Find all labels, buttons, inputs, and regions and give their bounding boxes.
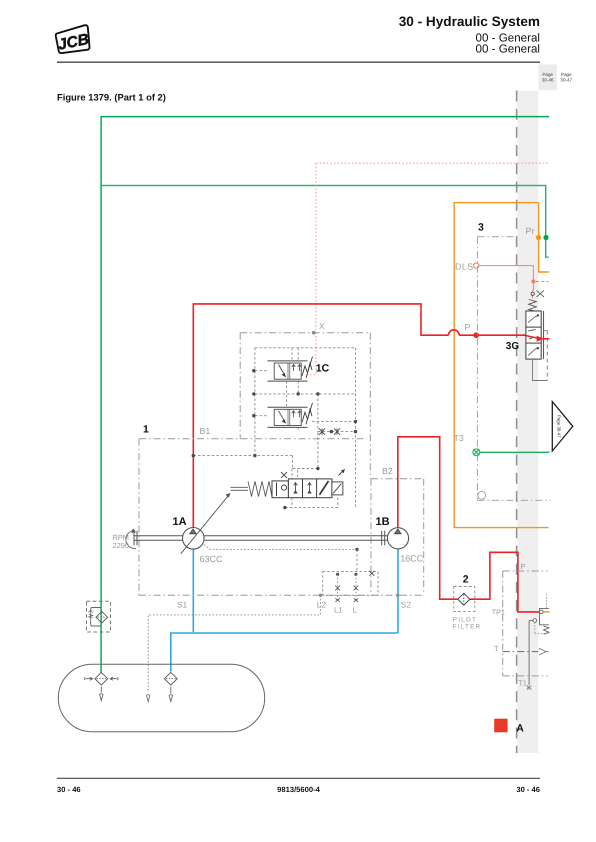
node S2 box dot: [396, 594, 399, 597]
valve 3G drain: [533, 331, 548, 381]
svg-text:30 - 46: 30 - 46: [57, 785, 81, 794]
svg-text:63CC: 63CC: [200, 554, 224, 564]
svg-text:1B: 1B: [376, 516, 390, 528]
box 1C inner dashed: [255, 348, 356, 508]
fold dashed line: [516, 91, 518, 754]
node X junction dot: [312, 331, 316, 335]
wire salmon stub above 3G spring: [532, 291, 534, 299]
svg-text:1: 1: [143, 424, 149, 436]
svg-text:2290: 2290: [113, 541, 129, 550]
svg-text:TP1: TP1: [492, 607, 505, 616]
svg-text:X: X: [319, 321, 325, 331]
svg-text:T: T: [494, 644, 499, 653]
pump 1A outlet triangle: [190, 529, 197, 534]
svg-text:T3: T3: [454, 433, 464, 443]
page tab 30-47: [560, 72, 572, 82]
svg-text:B1: B1: [200, 426, 211, 436]
svg-text:DLS: DLS: [455, 261, 474, 271]
svg-text:A: A: [516, 722, 524, 734]
svg-text:30-47: 30-47: [560, 78, 572, 83]
node L2 dot: [319, 594, 322, 597]
rpm arrowhead: [131, 528, 136, 533]
wire orange load sense loop: [454, 203, 548, 528]
pilot filter element: [458, 593, 470, 605]
wire orange dotted pilot X vertical: [305, 163, 316, 375]
svg-text:B2: B2: [382, 466, 393, 476]
box B2 boundary: [371, 479, 424, 596]
page tab 30-46: [538, 64, 557, 90]
wire orange TP1 stub: [543, 611, 550, 613]
arrow drain into tank: [147, 695, 150, 702]
svg-text:30 - 46: 30 - 46: [516, 785, 540, 794]
svg-text:FILTER: FILTER: [453, 624, 481, 631]
wire dashed pilot to compensator: [285, 469, 338, 508]
pump compensator spring: [248, 481, 272, 496]
orifice symbols 1C: [319, 428, 340, 434]
pump 1A arrowhead: [225, 493, 230, 498]
relief valve 3 spring: [529, 300, 537, 312]
node dots 1C network: [192, 369, 358, 470]
wire red pump 1B pressure: [398, 437, 458, 599]
wire salmon DLS line: [479, 266, 534, 291]
box 1 boundary: [139, 439, 424, 596]
reducing valve pilot dotted: [535, 594, 548, 633]
wire blue suction manifold: [171, 633, 398, 672]
svg-text:1C: 1C: [316, 362, 330, 374]
svg-text:L: L: [353, 605, 357, 614]
node case drain dot: [355, 548, 358, 551]
wire orange Pr drop: [539, 203, 549, 272]
pump compensator body: [288, 479, 332, 498]
node green dot: [543, 235, 548, 240]
strainer drain arrow green: [100, 687, 103, 701]
return filter bypass check: [89, 610, 93, 618]
svg-text:1A: 1A: [173, 516, 187, 528]
wire salmon dashed stub: [536, 281, 548, 283]
node DLS port circle: [474, 263, 479, 268]
return filter element: [96, 611, 108, 623]
svg-text:3G: 3G: [506, 341, 520, 352]
relief valve 3 throttle: [531, 291, 544, 298]
svg-text:Page: Page: [542, 72, 553, 77]
wire dotted case drain 1A: [204, 545, 357, 550]
pump 1A: [183, 528, 205, 550]
svg-text:Figure 1379. (Part 1 of 2): Figure 1379. (Part 1 of 2): [57, 92, 166, 103]
wire green branch to Pr: [102, 186, 549, 258]
wire dotted L1 L drops: [338, 574, 356, 602]
pilot filter 2 dashed box: [454, 587, 475, 612]
wire dashed valve ports 1C: [193, 348, 355, 469]
solenoid 1C lower spring: [302, 403, 313, 425]
wire dotted L2 drain: [148, 595, 320, 691]
node T3 plug: [473, 449, 480, 456]
pump 1A drive shaft left: [134, 531, 183, 546]
wire red P to valve 3G: [459, 334, 526, 336]
header rule: [57, 61, 540, 63]
pump 1B: [387, 528, 408, 549]
tank: [58, 664, 264, 732]
drive shaft between pumps: [204, 531, 387, 546]
wire red arrowhead 3G: [537, 336, 544, 342]
node salmon junction dot: [531, 279, 535, 283]
valve 3 boundary gray: [477, 237, 551, 501]
node compensator drain dot: [283, 506, 286, 509]
box drain orifices dashed: [323, 572, 378, 596]
port O symbol: [478, 491, 486, 499]
svg-text:Pr: Pr: [526, 226, 535, 236]
svg-text:P: P: [521, 562, 526, 571]
box 1C boundary: [240, 333, 370, 479]
reducing valve block A: [527, 608, 549, 689]
svg-text:30 - Hydraulic System: 30 - Hydraulic System: [399, 14, 540, 29]
block A boundary: [503, 571, 548, 676]
wire red pump 1A pressure: [193, 304, 448, 528]
pump 1A variable arrow: [181, 495, 229, 554]
node P red dot: [473, 332, 479, 338]
svg-text:16CC: 16CC: [400, 553, 424, 563]
wire blue suction S1: [192, 550, 194, 633]
fold shading band: [517, 91, 538, 754]
pump compensator right box: [332, 469, 345, 495]
suction strainer green: [85, 672, 119, 685]
valve 3G body: [526, 311, 544, 359]
svg-text:Page 30-47: Page 30-47: [557, 415, 562, 438]
suction strainer blue: [164, 672, 177, 685]
legend red square A: [494, 719, 507, 733]
return filter dashed box: [87, 601, 111, 632]
svg-text:2: 2: [463, 573, 469, 585]
wire dashed drain drop: [356, 549, 358, 571]
wire green suction top: [101, 117, 549, 673]
svg-text:3: 3: [478, 222, 484, 234]
wire blue suction S2: [397, 549, 399, 633]
wire red pilot filter to block A: [470, 552, 539, 612]
wire green T3: [480, 451, 550, 453]
svg-text:S1: S1: [177, 600, 188, 610]
JCB logo: [55, 25, 93, 56]
tank line T with check: [503, 648, 549, 655]
wire red inside 3G: [526, 336, 549, 339]
return filter bypass: [91, 608, 102, 627]
page 30-47 arrow: [552, 402, 573, 451]
svg-text:S2: S2: [401, 600, 412, 610]
solenoid valve 1C upper: [268, 361, 308, 381]
svg-text:00 - General: 00 - General: [476, 43, 540, 56]
svg-text:L2: L2: [317, 600, 327, 610]
svg-text:30-46: 30-46: [542, 78, 554, 83]
node drain dots: [336, 573, 358, 576]
pump compensator piston: [272, 481, 288, 498]
svg-text:PILOT: PILOT: [453, 617, 477, 624]
solenoid valve 1C lower: [268, 407, 308, 427]
svg-text:P: P: [465, 322, 471, 332]
svg-text:L1: L1: [334, 605, 342, 614]
orifice x mark compensator pilot: [281, 472, 287, 478]
svg-text:9813/5600-4: 9813/5600-4: [277, 785, 320, 794]
reducing valve spring: [544, 626, 550, 634]
pump 1B outlet triangle: [394, 529, 401, 534]
svg-text:Page: Page: [561, 72, 572, 77]
orifice x marks L1 L: [335, 571, 374, 602]
solenoid 1C upper spring: [302, 357, 313, 379]
rpm arrow: [126, 531, 136, 549]
wire orange dotted pilot X horizontal: [316, 162, 550, 164]
node Pr orange dot: [536, 235, 541, 240]
wire red hop over orange: [448, 330, 459, 335]
pump compensator pipe: [231, 487, 249, 490]
footer rule: [57, 777, 540, 779]
strainer drain arrow blue: [169, 687, 172, 702]
